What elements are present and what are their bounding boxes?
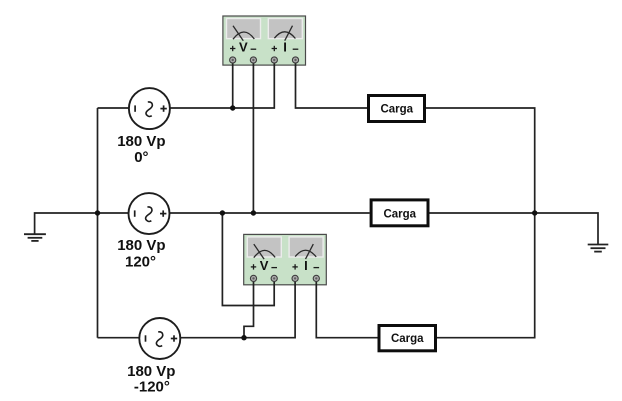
XWM1 terminal stubs xyxy=(233,60,296,66)
wattmeter XWM1 xyxy=(223,16,306,66)
svg-text:180 Vp: 180 Vp xyxy=(117,237,165,254)
wire wattmeter XWM1 V+ to phase A xyxy=(232,60,234,108)
XWM2 terminals xyxy=(250,275,319,281)
XWM1 current meter face xyxy=(268,19,302,39)
XWM2 terminal stubs xyxy=(254,278,317,285)
load B (Carga) xyxy=(371,200,428,226)
svg-text:0°: 0° xyxy=(134,149,148,166)
svg-text:V: V xyxy=(260,258,269,273)
svg-text:Carga: Carga xyxy=(391,333,424,345)
label V3 value 180 Vp -120deg xyxy=(127,363,175,395)
wire load C to star point xyxy=(437,213,535,338)
wire phase B: bus to source V2 xyxy=(98,212,129,214)
wire left bus xyxy=(97,108,99,338)
junction phase C / XWM2 V+ xyxy=(241,335,246,340)
XWM1 polarity labels +V- +I- xyxy=(230,46,298,51)
wire neutral to left ground xyxy=(35,213,98,234)
junction neutral / XWM2 V- xyxy=(220,210,225,215)
XWM1 terminals xyxy=(230,57,299,63)
XWM2 polarity labels +V- +I- xyxy=(251,264,319,269)
wire phase C: bus to source V3 xyxy=(98,337,140,339)
svg-text:I: I xyxy=(304,258,308,273)
ground GND1 (left) xyxy=(24,234,46,241)
wire phase A: bus to source V1 xyxy=(98,107,130,109)
XWM2 current meter face xyxy=(289,237,323,257)
junction star point xyxy=(532,210,537,215)
svg-text:180 Vp: 180 Vp xyxy=(117,133,165,150)
wire phase A: source V1 to wattmeter I+ xyxy=(170,60,274,108)
junction neutral / left ground xyxy=(95,210,100,215)
wire wattmeter XWM2 V+ tap to phase C xyxy=(244,278,254,337)
wire wattmeter XWM2 V- to neutral xyxy=(222,213,274,306)
svg-text:-120°: -120° xyxy=(134,378,170,395)
junction neutral / XWM1 V- xyxy=(251,210,256,215)
label V1 value 180 Vp 0deg xyxy=(117,133,165,166)
svg-text:V: V xyxy=(239,40,248,55)
wire load B to right ground xyxy=(430,213,599,245)
ac source V1 xyxy=(129,88,170,129)
wire load A to star point xyxy=(426,108,535,213)
junction phase A / XWM1 V+ xyxy=(230,105,235,110)
svg-text:Carga: Carga xyxy=(380,103,413,115)
wire phase C: source V3 to wattmeter XWM2 I+ xyxy=(180,278,295,337)
svg-text:120°: 120° xyxy=(125,253,156,270)
wire wattmeter XWM2 I- to load C xyxy=(316,278,377,337)
XWM2 voltage meter face xyxy=(247,237,281,257)
svg-text:I: I xyxy=(283,40,287,55)
ground GND2 (right) xyxy=(588,245,609,252)
wire wattmeter XWM1 I- to load A xyxy=(296,60,368,108)
wire wattmeter XWM1 V- down to neutral xyxy=(252,60,254,213)
wattmeter XWM2 xyxy=(244,234,327,285)
wire phase B: source V2 to load B xyxy=(170,212,370,214)
svg-text:Carga: Carga xyxy=(383,208,416,220)
XWM1 voltage meter face xyxy=(227,19,261,39)
ac source V2 xyxy=(129,193,170,234)
load A (Carga) xyxy=(369,96,425,122)
ac source V3 xyxy=(139,318,180,359)
load C (Carga) xyxy=(379,326,436,351)
label V2 value 180 Vp 120deg xyxy=(117,237,165,270)
